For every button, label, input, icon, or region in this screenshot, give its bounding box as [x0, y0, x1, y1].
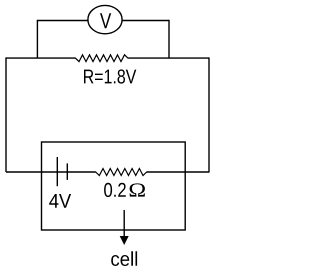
cell box	[42, 142, 186, 230]
label cell	[111, 251, 137, 266]
wire	[6, 171, 96, 173]
wire	[122, 20, 169, 22]
label R=1.8V	[84, 69, 136, 83]
wire	[5, 57, 7, 172]
arrow	[120, 210, 129, 245]
resistor r1 0.2ohm	[96, 169, 147, 176]
wire	[37, 20, 88, 22]
wire	[36, 20, 38, 58]
battery B1	[57, 157, 67, 186]
label 0.2ohm	[104, 183, 126, 197]
resistor R1	[76, 55, 129, 62]
label 4V	[49, 194, 71, 208]
voltmeter V1	[88, 5, 122, 33]
wire	[147, 171, 210, 173]
wire	[6, 57, 76, 59]
wire	[128, 57, 209, 59]
wire	[168, 20, 170, 58]
wire	[208, 57, 210, 172]
